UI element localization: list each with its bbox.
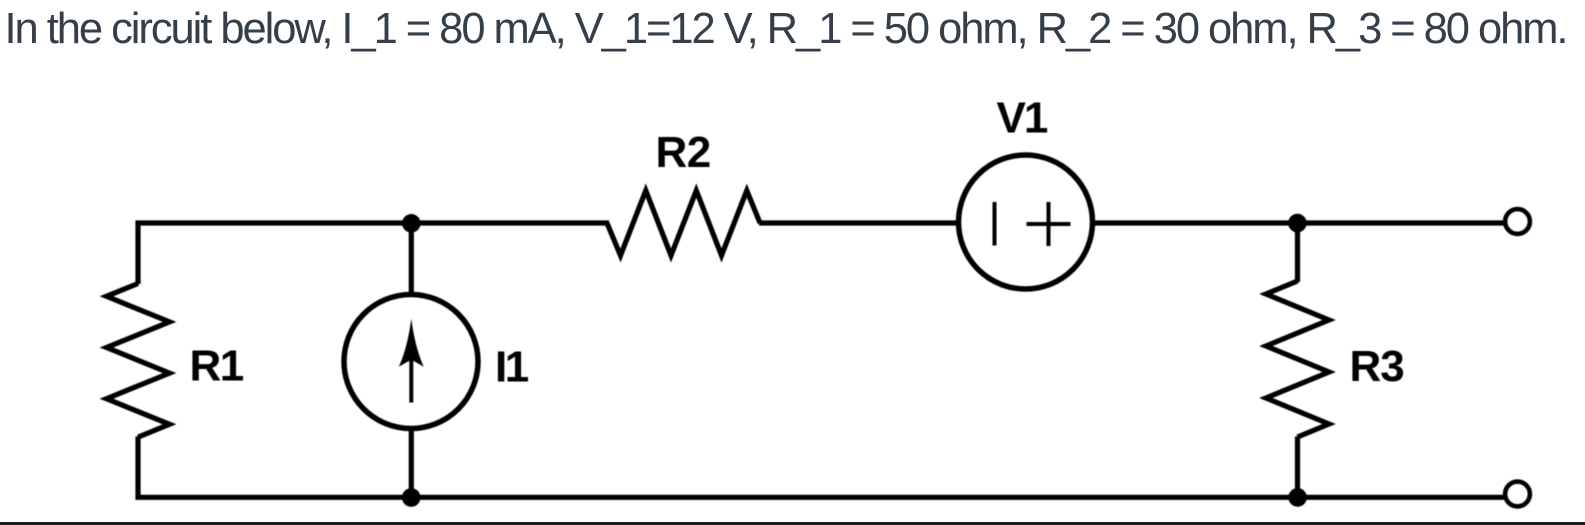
terminal bottom-right bbox=[1505, 482, 1530, 507]
resistor R1 zigzag bbox=[107, 284, 170, 438]
svg-text:V1: V1 bbox=[997, 93, 1048, 142]
wire V1 to node B to terminal bbox=[1092, 220, 1506, 225]
svg-text:I1: I1 bbox=[495, 342, 529, 391]
bottom divider rule bbox=[0, 522, 1585, 525]
problem statement text bbox=[5, 5, 1567, 54]
wire I1 top vertical bbox=[409, 223, 414, 296]
junction node bottom-left bbox=[402, 488, 421, 507]
terminal top-right bbox=[1505, 209, 1530, 234]
wire R2 to V1 bbox=[759, 220, 959, 225]
junction node top-right bbox=[1288, 214, 1307, 233]
wire R3 top vertical bbox=[1295, 223, 1300, 282]
V1 plus sign bbox=[1047, 202, 1051, 246]
svg-text:R3: R3 bbox=[1350, 342, 1404, 391]
I1 arrow head bbox=[399, 319, 424, 367]
voltage source V1 circle bbox=[959, 155, 1093, 289]
wire R3 bottom vertical bbox=[1295, 437, 1300, 498]
wire left vertical top bbox=[135, 221, 140, 285]
wire bottom horizontal bbox=[136, 495, 1507, 500]
svg-text:R1: R1 bbox=[190, 342, 244, 391]
junction node bottom-right bbox=[1288, 488, 1307, 507]
svg-text:R2: R2 bbox=[656, 128, 711, 177]
V1 minus bar bbox=[993, 202, 997, 246]
I1 arrow shaft bbox=[409, 340, 413, 403]
junction node top-left bbox=[402, 214, 421, 233]
resistor R2 zigzag bbox=[607, 191, 760, 256]
wire I1 bottom vertical bbox=[409, 427, 414, 497]
wire left vertical bottom bbox=[135, 437, 140, 500]
current source I1 circle bbox=[344, 295, 478, 429]
resistor R3 zigzag bbox=[1266, 281, 1329, 437]
wire top-left horizontal (node A to R2) bbox=[136, 220, 610, 225]
